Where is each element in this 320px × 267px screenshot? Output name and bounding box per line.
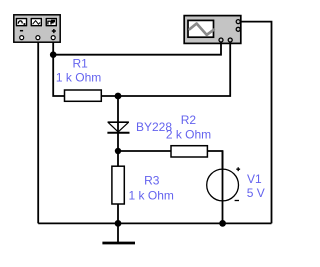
voltage source V1 [207,167,240,201]
svg-text:2 k Ohm: 2 k Ohm [166,128,211,142]
ground GND [102,223,135,243]
diode D1 BY228 [107,122,129,133]
scope terminal bottom A [219,38,223,42]
wire node C to R2 left lead [118,150,171,152]
svg-text:R1: R1 [73,57,89,71]
V1 minus mark [235,200,239,202]
wire FG plus terminal down to node A [52,40,54,55]
wire FG common terminal to bottom rail (left vertical) [37,40,39,224]
scope screen sine trace [190,24,214,35]
junction node B [115,93,122,100]
svg-text:1 k Ohm: 1 k Ohm [129,189,174,203]
plus mark [52,29,56,33]
wire bottom ground rail [38,222,271,224]
wire node B down through diode to node C [117,96,119,151]
junction ground node [115,220,122,227]
wire node A to scope channel A terminal [53,42,221,55]
svg-text:R3: R3 [144,173,160,187]
V1 plus mark [236,167,240,171]
resistor R2 [171,146,207,157]
junction node A [50,51,57,58]
svg-text:V1: V1 [247,172,262,186]
wire through V1 to node D [222,151,224,223]
wire node C down through R3 to ground node [117,151,119,223]
wire R2 right lead to V1 top [207,151,222,169]
svg-text:R2: R2 [181,113,197,127]
svg-text:5 V: 5 V [247,186,265,200]
wire R1 right lead to node B [101,95,118,97]
FG terminal plus [51,36,55,40]
scope terminal bottom B [228,38,232,42]
junction node C [115,148,121,154]
square button [45,17,58,26]
svg-text:1 k Ohm: 1 k Ohm [56,71,101,85]
resistor R3 [112,166,124,204]
function generator XFG1 [14,15,60,42]
wire scope top terminal to right vertical rail [240,22,271,224]
scope terminal right bottom [236,27,240,31]
wire node A down and right to R1 left lead [53,55,64,96]
FG terminal minus [20,36,24,40]
oscilloscope XSC1 [184,16,241,44]
sine button [15,17,27,26]
wire node B to scope channel B terminal [118,42,230,96]
minus mark [20,30,23,32]
triangle button [30,17,43,26]
junction node D [219,220,226,227]
FG terminal common [36,36,40,40]
scope terminal right top [236,20,240,24]
resistor R1 [65,90,102,101]
